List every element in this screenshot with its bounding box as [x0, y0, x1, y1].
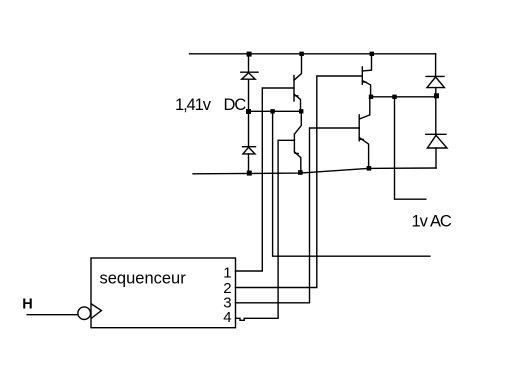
wire right diode column upper segment	[435, 54, 437, 77]
node AC emitter-node junction	[369, 95, 373, 99]
svg-text:1vAC: 1vAC	[412, 213, 452, 231]
wire H input lead	[27, 314, 77, 316]
transistor Q1 (upper left)	[294, 54, 302, 112]
pin 2 wire (to Q3 base)	[236, 76, 363, 288]
transistor Q3 (upper right)	[362, 54, 371, 97]
node top rail / Q3 collector junction	[370, 52, 374, 56]
sequenceur box U1	[91, 258, 236, 328]
node AC tap junction	[392, 95, 396, 99]
zener diode D2	[243, 147, 256, 154]
svg-text:1: 1	[223, 264, 231, 281]
wire bottom rail	[193, 168, 436, 174]
wire DC reference long line	[273, 111, 430, 256]
wire zener column middle segment	[248, 79, 250, 147]
wire zener column lower segment	[248, 154, 250, 173]
node midpoint line / DC reference drop junction	[270, 109, 274, 113]
node DC midpoint on zener column	[246, 109, 251, 114]
pin 1 wire (to Q1 base)	[236, 88, 295, 271]
node bottom rail / zener column junction	[247, 171, 252, 176]
wire zener column upper segment	[248, 54, 250, 72]
transistor Q4 (lower right)	[359, 97, 370, 168]
svg-text:4: 4	[223, 309, 231, 326]
transistor Q2 (lower left)	[294, 111, 301, 172]
node right diode midpoint junction	[434, 93, 439, 98]
wire right diode column lower segment	[435, 148, 437, 168]
svg-text:sequenceur: sequenceur	[100, 270, 187, 288]
node bottom rail / Q2 emitter junction	[298, 170, 303, 175]
node top rail / Q1 collector junction	[299, 52, 303, 56]
clock chevron on sequenceur input	[92, 304, 102, 318]
node top rail / zener column junction	[247, 52, 252, 57]
pin 4 wire (to Q2 base, with notch)	[236, 140, 294, 320]
svg-text:H: H	[22, 296, 32, 312]
diode D4 (lower right column)	[426, 134, 447, 148]
zener diode D1	[241, 72, 258, 79]
wire 1v AC output stub	[395, 97, 426, 199]
node bottom rail / Q4 emitter junction	[367, 166, 372, 171]
node midpoint line / Q1-Q2 emitter-collector junction	[299, 109, 303, 113]
wire right diode column middle segment	[435, 88, 437, 135]
pin 3 wire (to Q4 base)	[236, 128, 360, 303]
wire top supply rail	[190, 53, 436, 55]
inverter bubble on H input	[78, 307, 91, 320]
diode D3 (upper right column)	[426, 76, 444, 87]
wire DC midpoint line	[249, 110, 302, 112]
svg-text:1,41vDC: 1,41vDC	[175, 96, 246, 114]
wire emitter output node line	[371, 96, 436, 98]
